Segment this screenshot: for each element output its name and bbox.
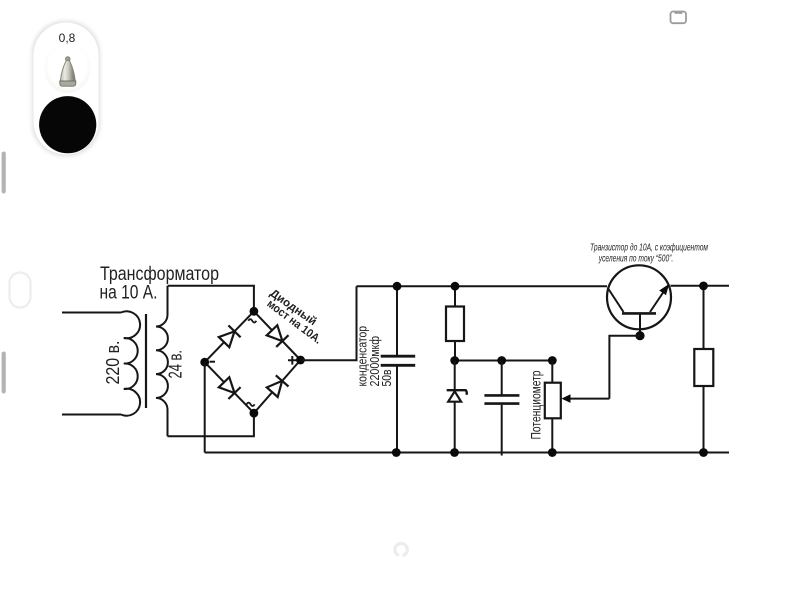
left edge faint pill outline: [10, 273, 31, 308]
diode D2 top-right: [267, 325, 289, 347]
tilde label top: [248, 319, 256, 322]
junction dot R1 top: [451, 282, 460, 291]
junction dot node pot: [548, 356, 557, 365]
junction dot R2 bottom: [699, 448, 708, 457]
left edge scroll bar bottom: [2, 352, 6, 394]
resistor R2: [694, 286, 713, 453]
bridge edge top-right: [254, 311, 301, 360]
220V label: [103, 341, 123, 385]
junction dot R2 top: [699, 282, 708, 291]
junction dot C1 bottom: [392, 448, 401, 457]
potentiometer R3: [545, 361, 561, 453]
junction dot zener bottom: [450, 448, 459, 457]
bridge label: [264, 287, 323, 346]
minus label: [210, 361, 216, 363]
zener diode VD1: [447, 361, 467, 453]
capacitor C1: [381, 286, 416, 453]
diode D4 bottom-right: [267, 375, 289, 397]
capacitor C1 label: [355, 326, 395, 387]
svg-text:Транзистор до 10А, с коэфициен: Транзистор до 10А, с коэфициентом: [590, 242, 708, 254]
junction dot node R1: [450, 356, 459, 365]
base wire to wiper: [609, 336, 640, 399]
node plus right vertex: [296, 356, 305, 365]
top rail left: [357, 285, 608, 287]
tilde label bottom: [247, 403, 255, 406]
bridge edge bottom-right: [254, 360, 301, 413]
plus label: [288, 356, 297, 365]
wire plus up to top rail: [301, 286, 357, 360]
left edge scroll bar top: [2, 152, 6, 194]
junction dot pot bottom: [548, 448, 557, 457]
svg-text:220 в.: 220 в.: [103, 341, 123, 385]
svg-text:0,8: 0,8: [59, 31, 76, 45]
tool pill panel: [32, 21, 100, 156]
transistor VT1: [607, 265, 671, 335]
transistor label: [590, 242, 708, 265]
wire minus to ground rail: [204, 362, 206, 452]
reference node line: [455, 360, 552, 362]
svg-text:50в: 50в: [379, 369, 394, 386]
potentiometer wiper arrow: [562, 394, 610, 403]
diode D1 top-left: [219, 325, 241, 347]
transformer T1 primary top wire: [62, 312, 121, 314]
diode D3 bottom-left: [219, 377, 241, 399]
ground rail: [205, 452, 729, 454]
potentiometer label: [529, 371, 544, 440]
bottom faint sync icon: [395, 543, 407, 555]
pen width label 0,8: [59, 31, 76, 45]
wire secondary bottom to bridge: [168, 413, 254, 436]
svg-text:на 10 А.: на 10 А.: [100, 283, 158, 304]
transformer core: [145, 314, 147, 408]
capacitor C2: [484, 361, 519, 456]
transformer label: [100, 264, 220, 304]
wire secondary top to bridge: [168, 286, 254, 312]
svg-text:уселения по току “500”.: уселения по току “500”.: [598, 254, 673, 265]
color swatch black circle: [39, 96, 96, 153]
node AC top vertex: [250, 307, 259, 316]
node minus left vertex: [200, 358, 209, 367]
bridge edge left-bottom: [205, 362, 254, 413]
transformer T1 secondary winding: [156, 286, 168, 436]
junction dot node C2: [497, 356, 506, 365]
transistor base junction dot: [635, 331, 644, 340]
pen nib icon: [60, 57, 76, 86]
resistor R1: [446, 286, 464, 361]
svg-text:Потенциометр: Потенциометр: [529, 371, 544, 440]
bridge edge left-top: [205, 311, 254, 362]
node AC bottom vertex: [250, 409, 259, 418]
24V label: [166, 350, 186, 379]
transformer T1 primary winding: [121, 311, 140, 415]
top right toolbar icon: [671, 12, 687, 24]
svg-text:24 в.: 24 в.: [166, 350, 186, 379]
junction dot C1 top: [393, 282, 402, 291]
transformer T1 primary bottom wire: [62, 414, 121, 416]
top rail right: [671, 285, 730, 287]
